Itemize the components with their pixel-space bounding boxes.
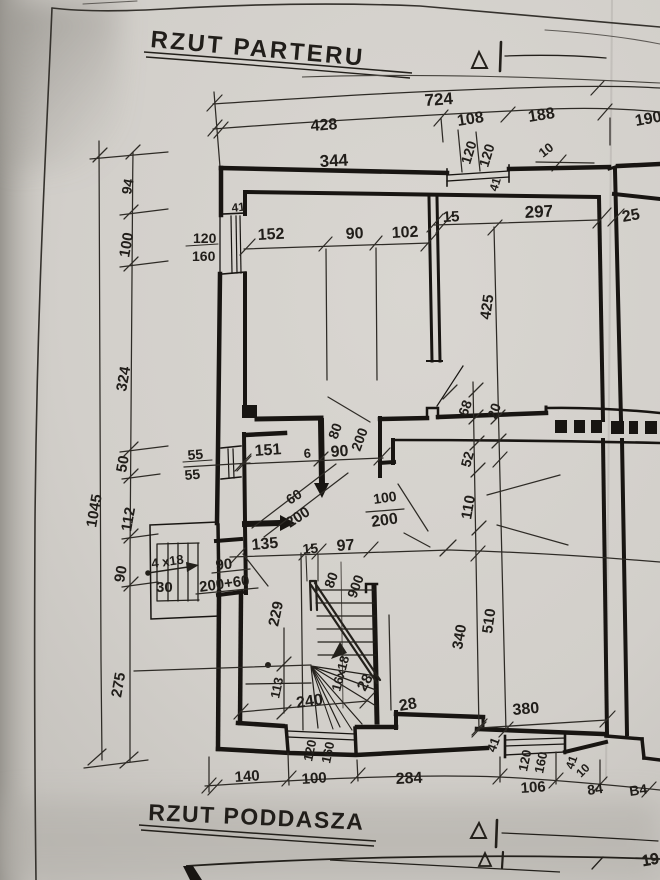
treads small stair bbox=[168, 543, 198, 601]
svg-text:102: 102 bbox=[391, 224, 419, 242]
dim line 135/15/97 bbox=[230, 550, 450, 557]
section marker A top bbox=[472, 52, 487, 68]
dim 113 vertical bbox=[283, 628, 285, 713]
bottom chain risers bbox=[208, 757, 210, 792]
wire south outer under window bbox=[505, 752, 565, 755]
node chimney bump bbox=[427, 408, 438, 418]
svg-text:15: 15 bbox=[302, 540, 319, 557]
vertical line segments bbox=[130, 152, 133, 762]
section marker A bottom bbox=[471, 823, 486, 838]
wire south outer full bbox=[218, 748, 487, 755]
dim 380 line bbox=[479, 720, 607, 728]
svg-text:97: 97 bbox=[336, 537, 355, 555]
winder fan bbox=[311, 666, 376, 728]
svg-text:344: 344 bbox=[319, 151, 349, 171]
wire west pair top closure bbox=[218, 592, 242, 595]
INTERIOR DIM LINES bbox=[134, 208, 660, 797]
svg-text:120: 120 bbox=[193, 230, 217, 246]
svg-text:106: 106 bbox=[520, 778, 546, 797]
section marker A bottom 2 bbox=[479, 853, 491, 866]
svg-text:100: 100 bbox=[301, 769, 327, 788]
wire north inner right of corridor bbox=[614, 194, 660, 199]
attic wall corner bbox=[183, 866, 202, 880]
page edge curve top right bbox=[545, 30, 660, 44]
wire long inner line y440 bbox=[393, 440, 660, 443]
svg-text:30: 30 bbox=[156, 579, 173, 596]
wire west wall inner stub bbox=[243, 192, 247, 214]
STAIRS bbox=[145, 543, 380, 730]
drop lines in room 344 bbox=[326, 249, 327, 380]
risers for 120/120 window dims bbox=[458, 130, 462, 172]
dim 240 line bbox=[240, 701, 368, 712]
diag door label 60/200 slashes bbox=[264, 473, 348, 537]
svg-text:284: 284 bbox=[395, 770, 423, 788]
svg-text:28: 28 bbox=[398, 695, 419, 715]
vertical dim P/Q 425/510 bbox=[494, 227, 506, 731]
fan lines to south wall bbox=[311, 666, 352, 730]
svg-text:90: 90 bbox=[111, 564, 131, 583]
svg-text:90: 90 bbox=[215, 556, 233, 574]
vertical drop at x610 bbox=[609, 118, 611, 145]
wire L jog piece vertical bbox=[378, 418, 382, 476]
wire south inner mid bbox=[357, 725, 396, 730]
wire west wall outer mid bbox=[217, 274, 220, 523]
door swing diagonal bbox=[437, 366, 463, 406]
vertical dim R 340 bbox=[473, 382, 479, 731]
wire west wall outer top bbox=[219, 168, 224, 215]
drop line x390 (28 dim) bbox=[389, 615, 391, 710]
small 10 dim line bbox=[536, 162, 594, 163]
wire north wall outer mid bbox=[509, 167, 609, 169]
drop line x302 bbox=[301, 553, 303, 730]
leader lines 100/200 bbox=[398, 484, 428, 531]
wire west wall pair lower inner bbox=[240, 594, 241, 723]
window W thin outer bbox=[219, 215, 221, 274]
svg-text:94: 94 bbox=[118, 177, 136, 195]
dim line 297 bbox=[434, 220, 598, 225]
wire mid wall H1 right bbox=[438, 413, 546, 417]
wire west wall inner mid bbox=[243, 274, 247, 406]
page edge sliver top bbox=[83, 1, 137, 4]
svg-text:B4: B4 bbox=[628, 781, 648, 799]
wire south inner raised bbox=[396, 714, 483, 717]
svg-text:90: 90 bbox=[345, 225, 364, 243]
wire corridor wall V4 bbox=[615, 170, 621, 420]
wire corridor wall V3 bbox=[599, 197, 603, 420]
wire west inner below arrow bbox=[245, 527, 246, 593]
wire west inner lower bbox=[244, 434, 245, 521]
BOTTOM ATTIC PLAN EDGE bbox=[183, 856, 660, 880]
wire porch outline bbox=[150, 522, 219, 619]
svg-text:140: 140 bbox=[234, 767, 260, 786]
SECTION MARKERS A bbox=[471, 42, 660, 870]
attic second line bbox=[330, 860, 560, 872]
wire interior wall x430 pair bbox=[429, 198, 432, 361]
dim 68/20 slashes on wall bbox=[443, 385, 457, 399]
wire south inner left bbox=[238, 723, 283, 726]
wire south inner right thick bbox=[477, 729, 604, 734]
svg-text:151: 151 bbox=[254, 441, 282, 460]
small stair arrow bbox=[145, 570, 151, 576]
dim line 724 bbox=[213, 86, 660, 104]
tick y263 bbox=[120, 261, 168, 267]
dim line 151/6/90 bbox=[240, 458, 383, 464]
door swing diag hall bbox=[328, 397, 370, 422]
leader for 100/200 right diag bbox=[487, 475, 560, 495]
line under 55 label bbox=[183, 460, 212, 462]
window W2 jambs bbox=[504, 736, 507, 757]
WALLS bbox=[150, 164, 660, 760]
svg-text:84: 84 bbox=[586, 780, 604, 798]
title underline double bbox=[144, 52, 412, 73]
svg-text:297: 297 bbox=[524, 202, 553, 222]
node stair top hook bbox=[366, 584, 377, 592]
window W2 glazing bbox=[505, 738, 565, 740]
riser at x448 bbox=[441, 118, 443, 142]
paper fold crease bbox=[606, 0, 612, 780]
window W1 glazing bbox=[288, 731, 355, 734]
svg-text:6: 6 bbox=[303, 446, 311, 461]
svg-text:41: 41 bbox=[231, 200, 246, 215]
wire north wall outer left bbox=[221, 168, 447, 173]
small porch stair box bbox=[157, 543, 199, 601]
svg-text:425: 425 bbox=[477, 293, 497, 320]
pier black rect bbox=[242, 405, 257, 418]
winder left extension bbox=[246, 683, 311, 684]
svg-text:380: 380 bbox=[512, 700, 540, 719]
tick y584 bbox=[122, 582, 158, 587]
dim line 428/108/188/190 bbox=[213, 108, 660, 129]
main stair railing bbox=[310, 581, 317, 610]
window 55 jambs bbox=[221, 446, 241, 448]
svg-text:90: 90 bbox=[330, 443, 349, 461]
wire corridor wall V6 lower bbox=[622, 440, 627, 734]
wire SE corner jog bbox=[606, 736, 642, 739]
svg-text:55: 55 bbox=[187, 446, 204, 463]
LEFT DIMENSION CHAIN bbox=[84, 141, 168, 768]
window 55 dim bbox=[184, 463, 250, 467]
wire west wall pair lower outer bbox=[218, 592, 219, 749]
riser at left of chains bbox=[214, 92, 220, 167]
svg-text:25: 25 bbox=[621, 206, 642, 226]
wire porch lintel bbox=[216, 539, 241, 541]
svg-text:152: 152 bbox=[257, 226, 285, 244]
vertical line 1045 bbox=[99, 141, 102, 760]
wire west outer behind porch bbox=[218, 525, 219, 592]
wire north wall outer right bbox=[618, 164, 660, 166]
node jog at fold bbox=[609, 166, 618, 169]
wire mid wall H1 bbox=[380, 418, 427, 419]
masonry blocks row bbox=[555, 420, 657, 434]
TITLES bbox=[139, 26, 660, 846]
svg-text:724: 724 bbox=[424, 89, 454, 110]
tick bottom y757 bbox=[88, 749, 106, 765]
tick top bbox=[90, 152, 168, 159]
underline double bottom bbox=[139, 825, 376, 841]
stair stringer double diagonal bbox=[311, 585, 377, 683]
wire closet wall B bbox=[245, 433, 285, 435]
wire corridor wall V5 lower bbox=[603, 440, 607, 734]
wire stair right wall bbox=[374, 586, 377, 722]
bottom chain main line bbox=[205, 776, 660, 790]
svg-text:428: 428 bbox=[310, 116, 338, 135]
node step 28 bbox=[394, 712, 398, 728]
svg-text:135: 135 bbox=[251, 535, 279, 554]
page border top bbox=[52, 4, 660, 27]
window N glazing bbox=[447, 171, 509, 175]
main stair treads bbox=[316, 590, 376, 655]
svg-text:15: 15 bbox=[442, 208, 460, 226]
window W glazing 3 lines bbox=[231, 216, 232, 273]
svg-text:100: 100 bbox=[372, 488, 398, 507]
tick on bottom line bbox=[592, 857, 603, 869]
attic top wall line bbox=[186, 856, 660, 866]
svg-text:55: 55 bbox=[184, 466, 201, 483]
node step small bbox=[545, 407, 548, 413]
tick y449 bbox=[120, 446, 168, 452]
wire closet wall A bbox=[257, 418, 321, 419]
entrance arrow hall (down) bbox=[321, 421, 322, 484]
svg-text:510: 510 bbox=[479, 607, 499, 634]
page border left bbox=[35, 8, 52, 880]
dim line 152/90/102 bbox=[244, 243, 430, 249]
entrance arrow porch (right) bbox=[245, 523, 281, 524]
svg-text:160: 160 bbox=[192, 248, 216, 264]
tick y536 bbox=[122, 534, 158, 539]
tick y476 bbox=[122, 474, 160, 479]
window W1 jamb right bbox=[355, 728, 356, 752]
long faint line under title area bbox=[302, 75, 660, 83]
svg-text:19: 19 bbox=[641, 850, 660, 870]
stair top risers bbox=[306, 556, 307, 581]
INTERIOR LABELS bbox=[150, 151, 648, 799]
long line right at y555 bbox=[450, 550, 660, 562]
wire north wall inner bbox=[247, 192, 598, 197]
stringer arrow bbox=[331, 642, 347, 659]
tick y212 bbox=[120, 209, 168, 215]
leader 90/200+60 bbox=[212, 569, 250, 573]
window W1 jamb left bbox=[286, 726, 288, 751]
wire wall top line over blocks bbox=[546, 408, 660, 413]
wire south outer right bbox=[565, 742, 606, 752]
TOP DIMENSION CHAIN bbox=[207, 81, 660, 172]
svg-text:50: 50 bbox=[113, 454, 133, 473]
